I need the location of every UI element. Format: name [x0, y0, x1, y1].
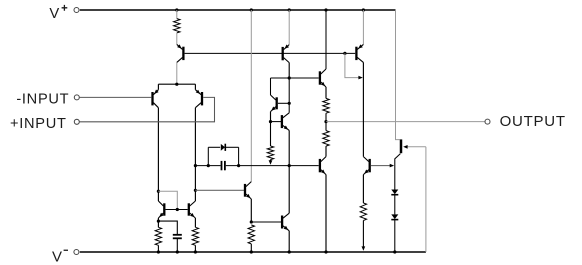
- wire Q14 emitter: [405, 146, 426, 148]
- wire V+ rail: [80, 9, 396, 11]
- resistor R5 body: [267, 146, 273, 160]
- node V-/R3: [194, 250, 197, 253]
- node Q7 collector: [288, 76, 291, 79]
- resistor R2: [155, 227, 161, 245]
- node V-/R2: [157, 250, 160, 253]
- wire Q8 base: [278, 102, 289, 104]
- wire mirror tie: [158, 191, 177, 209]
- resistor R3: [192, 227, 198, 245]
- diode D2: [391, 190, 398, 195]
- resistor R1: [174, 19, 180, 33]
- resistor R6: [323, 98, 329, 113]
- node comp left: [207, 164, 210, 167]
- wire R4 bottom: [250, 244, 252, 252]
- node V+/R1: [175, 8, 178, 11]
- transistor Q4: [190, 201, 196, 206]
- node Q1B collector tap: [194, 189, 197, 192]
- wire +INPUT: [79, 97, 214, 121]
- node Q9 base/Q8 emitter: [269, 120, 272, 123]
- resistor R7: [323, 131, 329, 147]
- -INPUT terminal: [74, 95, 79, 100]
- node Q8 base: [288, 102, 291, 105]
- node Q3 emitter tap: [157, 220, 160, 223]
- wire V+ to Q14 base: [396, 10, 400, 140]
- capacitor C1: [173, 234, 182, 236]
- arrow R5 junction: [269, 160, 273, 164]
- wire Q5 base: [195, 189, 244, 191]
- transistor Q13: [363, 157, 368, 162]
- wire diff emitter rail: [158, 83, 195, 85]
- svg-text:OUTPUT: OUTPUT: [500, 113, 566, 130]
- wire Q7 collector bus: [271, 77, 319, 79]
- V+ terminal: [74, 8, 79, 13]
- transistor Q9: [283, 113, 289, 118]
- node V-/C1: [176, 250, 179, 253]
- OUTPUT terminal: [485, 119, 490, 124]
- wire comp right: [238, 147, 240, 165]
- arrow Q13 base: [390, 164, 394, 168]
- transistor Q6: [283, 213, 289, 218]
- wire Q8-Q9 vertical: [288, 78, 290, 113]
- wire R5 tail: [270, 160, 272, 163]
- wire C1 tap: [158, 221, 177, 234]
- node V-/diodes: [393, 250, 396, 253]
- wire node line right: [226, 165, 319, 167]
- transistor Q1B: [194, 84, 196, 90]
- svg-text:-INPUT: -INPUT: [16, 92, 69, 108]
- node V-/Q11 emitter: [324, 250, 327, 253]
- wire comp top right: [226, 146, 239, 148]
- wire mirror base: [166, 209, 188, 211]
- wire D2-D3: [394, 195, 396, 215]
- resistor R8: [360, 203, 366, 221]
- transistor Q12: [362, 10, 364, 44]
- arrow Q14 emitter: [403, 145, 407, 149]
- node Q2 collector/diff emitters: [175, 83, 178, 86]
- node comp right: [237, 164, 240, 167]
- node mirror base tie: [176, 208, 179, 211]
- wire R1 top: [176, 10, 178, 19]
- transistor Q5: [246, 182, 251, 187]
- wire Q10 collector: [325, 10, 327, 69]
- wire node line left: [195, 165, 220, 167]
- resistor R4: [248, 225, 254, 244]
- diode D3: [391, 214, 398, 219]
- V- terminal: [74, 250, 79, 255]
- capacitor C2: [221, 161, 223, 170]
- wire R2 bottom: [157, 245, 159, 252]
- transistor Q14 bar: [400, 139, 403, 153]
- wire Q14 collector: [395, 154, 401, 190]
- svg-text:+INPUT: +INPUT: [10, 116, 67, 132]
- transistor Q1A: [157, 84, 159, 90]
- svg-text:V: V: [49, 6, 59, 22]
- node V+/Q10 collector: [324, 8, 327, 11]
- wire R7 top: [325, 122, 327, 131]
- transistor Q7: [288, 10, 290, 45]
- resistor R5: [270, 122, 272, 146]
- node V-/R4: [250, 250, 253, 253]
- diode D1: [221, 144, 225, 151]
- node Q12 base: [343, 52, 346, 55]
- wire Q9 base: [271, 121, 282, 123]
- node V+/Q5 collector: [250, 8, 253, 11]
- wire Q5 collector: [250, 10, 252, 182]
- transistor Q11: [325, 146, 327, 157]
- node line/Q1B collector: [194, 164, 197, 167]
- node Q1A collector tap: [157, 190, 160, 193]
- arrow R8 junction: [362, 246, 366, 250]
- node V+/Q12 emitter: [362, 8, 365, 11]
- wire R3 bottom: [194, 245, 196, 252]
- transistor Q10: [321, 69, 326, 74]
- wire D3 bottom: [394, 220, 396, 252]
- wire R6 tail: [325, 113, 327, 121]
- +INPUT terminal: [74, 119, 79, 124]
- wire R8 tail: [362, 221, 364, 248]
- wire Q12 base-collector tie: [345, 53, 361, 77]
- wire Q13 base: [371, 165, 393, 167]
- transistor Q3: [158, 201, 163, 206]
- node output: [324, 120, 327, 123]
- arrow Q12 tie: [358, 76, 362, 80]
- transistor Q8: [271, 95, 276, 100]
- node V-/Q6 emitter: [288, 250, 291, 253]
- node Q9 emitter crossing: [288, 164, 291, 167]
- wire OUTPUT: [326, 121, 485, 123]
- wire V- rail: [80, 251, 426, 253]
- wire -INPUT: [79, 96, 151, 98]
- svg-text:V: V: [52, 248, 62, 265]
- wire Q14 emitter drop: [425, 147, 427, 252]
- node V+/Q7 emitter: [288, 8, 291, 11]
- wire Q8 collector drop: [270, 78, 272, 95]
- wire comp left: [207, 147, 209, 165]
- node Q5 emitter/R4: [250, 220, 253, 223]
- wire Q5 emitter to Q6 base: [251, 221, 281, 223]
- transistor Q2: [176, 33, 178, 45]
- wire comp top left: [208, 146, 220, 148]
- wire Q2 base bus: [185, 52, 356, 54]
